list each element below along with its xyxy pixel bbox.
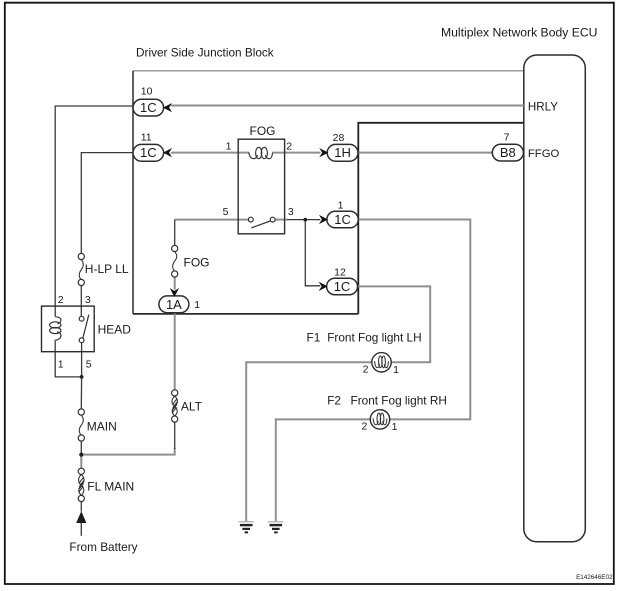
svg-text:Front Fog light RH: Front Fog light RH	[351, 393, 447, 407]
svg-text:2: 2	[58, 294, 64, 306]
svg-text:From Battery: From Battery	[69, 540, 137, 554]
svg-text:B8: B8	[500, 145, 516, 160]
svg-text:1C: 1C	[140, 145, 157, 160]
svg-text:Multiplex Network Body ECU: Multiplex Network Body ECU	[441, 26, 597, 40]
svg-text:E142646E02: E142646E02	[576, 574, 613, 581]
svg-text:2: 2	[361, 420, 367, 432]
svg-text:28: 28	[333, 132, 345, 144]
svg-text:1C: 1C	[334, 279, 351, 294]
svg-text:FOG: FOG	[184, 255, 210, 269]
svg-text:1: 1	[392, 421, 398, 433]
svg-text:FOG: FOG	[250, 124, 276, 138]
svg-text:ALT: ALT	[181, 399, 203, 413]
svg-text:HRLY: HRLY	[528, 101, 558, 114]
svg-text:1: 1	[194, 299, 200, 311]
svg-text:2: 2	[363, 363, 369, 375]
svg-text:1A: 1A	[166, 297, 182, 312]
svg-text:3: 3	[85, 294, 91, 306]
svg-text:H-LP LL: H-LP LL	[85, 262, 129, 276]
svg-text:7: 7	[504, 132, 510, 144]
svg-text:11: 11	[141, 132, 152, 144]
svg-text:MAIN: MAIN	[87, 420, 117, 434]
svg-text:3: 3	[288, 206, 294, 218]
svg-text:Front Fog light LH: Front Fog light LH	[327, 330, 421, 344]
svg-text:F2: F2	[327, 393, 341, 407]
svg-text:5: 5	[223, 206, 229, 218]
svg-text:FFGO: FFGO	[528, 148, 560, 160]
svg-text:2: 2	[286, 141, 292, 153]
svg-text:HEAD: HEAD	[98, 322, 132, 336]
svg-text:1C: 1C	[140, 100, 157, 115]
svg-text:1: 1	[393, 364, 399, 376]
svg-text:1: 1	[58, 358, 64, 370]
svg-text:1: 1	[338, 200, 344, 212]
svg-text:10: 10	[141, 86, 153, 98]
svg-text:1H: 1H	[334, 145, 351, 160]
svg-text:5: 5	[86, 358, 92, 370]
svg-text:1C: 1C	[334, 212, 351, 227]
svg-text:1: 1	[226, 141, 232, 153]
svg-text:FL MAIN: FL MAIN	[87, 479, 134, 493]
svg-text:12: 12	[334, 266, 346, 278]
svg-text:Driver Side Junction Block: Driver Side Junction Block	[136, 46, 274, 60]
svg-text:F1: F1	[307, 330, 321, 344]
